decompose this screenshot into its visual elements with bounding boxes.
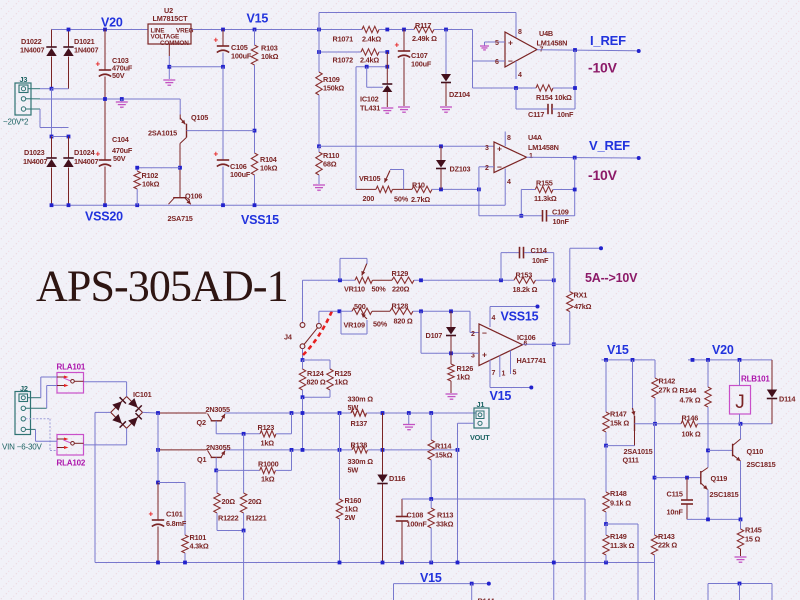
- svg-text:5W: 5W: [348, 466, 359, 475]
- svg-text:RLB101: RLB101: [741, 375, 770, 384]
- svg-text:10k Ω: 10k Ω: [682, 430, 701, 439]
- svg-text:TL431: TL431: [360, 104, 380, 113]
- svg-text:10nF: 10nF: [553, 217, 570, 226]
- svg-text:R1000: R1000: [258, 460, 279, 469]
- svg-text:100uF: 100uF: [411, 60, 432, 69]
- svg-text:LM1458N: LM1458N: [528, 143, 559, 152]
- svg-text:V20: V20: [712, 343, 734, 357]
- svg-text:V20: V20: [101, 16, 123, 30]
- svg-text:1kΩ: 1kΩ: [335, 378, 349, 387]
- svg-text:11.3k Ω: 11.3k Ω: [610, 541, 635, 550]
- svg-text:R149: R149: [610, 532, 627, 541]
- svg-text:100nF: 100nF: [407, 520, 428, 529]
- svg-text:150kΩ: 150kΩ: [323, 84, 344, 93]
- svg-text:2N3055: 2N3055: [206, 405, 231, 414]
- svg-text:R123: R123: [258, 423, 275, 432]
- svg-text:8: 8: [518, 29, 522, 36]
- svg-text:J2: J2: [20, 384, 28, 393]
- svg-text:8: 8: [507, 135, 511, 142]
- svg-text:R137: R137: [351, 419, 368, 428]
- svg-text:10kΩ: 10kΩ: [142, 180, 160, 189]
- svg-text:I_REF: I_REF: [590, 33, 626, 48]
- svg-text:R1221: R1221: [246, 514, 267, 523]
- svg-text:15kΩ: 15kΩ: [435, 451, 453, 460]
- svg-text:200: 200: [363, 194, 375, 203]
- svg-text:5W: 5W: [348, 403, 359, 412]
- svg-text:R113: R113: [437, 511, 453, 520]
- svg-text:R142: R142: [659, 377, 676, 386]
- svg-text:LM7815CT: LM7815CT: [153, 14, 189, 23]
- svg-text:2N3055: 2N3055: [206, 443, 231, 452]
- svg-text:R1071: R1071: [333, 35, 354, 44]
- svg-text:50V: 50V: [113, 154, 126, 163]
- svg-text:R148: R148: [610, 489, 627, 498]
- svg-text:6: 6: [495, 59, 499, 66]
- svg-text:COMMON: COMMON: [160, 40, 189, 47]
- svg-text:1N4007: 1N4007: [74, 157, 99, 166]
- svg-text:R1222: R1222: [218, 514, 239, 523]
- svg-text:RLA101: RLA101: [57, 363, 86, 372]
- svg-text:1kΩ: 1kΩ: [261, 475, 275, 484]
- svg-text:R117: R117: [415, 21, 431, 30]
- svg-text:5: 5: [513, 370, 517, 377]
- svg-text:VR105: VR105: [359, 174, 380, 183]
- svg-text:+: +: [497, 144, 502, 154]
- svg-text:C117: C117: [528, 110, 544, 119]
- svg-text:+: +: [96, 60, 101, 69]
- svg-text:C114: C114: [531, 246, 548, 255]
- svg-text:22k Ω: 22k Ω: [658, 541, 677, 550]
- svg-text:20Ω: 20Ω: [222, 497, 236, 506]
- svg-text:Q119: Q119: [711, 474, 728, 483]
- svg-text:C101: C101: [166, 510, 183, 519]
- svg-text:10kΩ: 10kΩ: [261, 52, 279, 61]
- svg-text:47kΩ: 47kΩ: [574, 302, 592, 311]
- svg-text:68Ω: 68Ω: [323, 160, 337, 169]
- svg-text:−: −: [508, 56, 513, 66]
- svg-text:33kΩ: 33kΩ: [436, 520, 454, 529]
- svg-text:100uF: 100uF: [230, 170, 251, 179]
- svg-text:VSS15: VSS15: [241, 213, 279, 227]
- svg-text:18.2k Ω: 18.2k Ω: [513, 285, 538, 294]
- svg-text:Q2: Q2: [197, 418, 206, 427]
- svg-text:27k Ω: 27k Ω: [659, 386, 678, 395]
- svg-text:C109: C109: [552, 208, 569, 217]
- svg-text:Q105: Q105: [191, 113, 208, 122]
- svg-text:APS-305AD-1: APS-305AD-1: [36, 262, 288, 311]
- svg-text:5: 5: [495, 40, 499, 47]
- svg-text:Q111: Q111: [623, 456, 639, 465]
- svg-text:500: 500: [354, 302, 366, 311]
- svg-text:C104: C104: [112, 135, 130, 144]
- svg-text:4: 4: [518, 72, 522, 79]
- svg-text:1N4007: 1N4007: [74, 46, 99, 55]
- svg-text:R114: R114: [435, 442, 452, 451]
- svg-text:-10V: -10V: [588, 167, 618, 183]
- svg-text:R10: R10: [412, 181, 425, 190]
- svg-text:+: +: [214, 150, 219, 159]
- svg-text:R155: R155: [536, 179, 553, 188]
- svg-text:J4: J4: [284, 333, 293, 342]
- svg-text:4: 4: [507, 179, 511, 186]
- svg-text:7: 7: [492, 370, 496, 377]
- svg-text:Q1: Q1: [197, 455, 206, 464]
- svg-text:V15: V15: [247, 12, 269, 26]
- svg-text:-10V: -10V: [588, 60, 618, 76]
- svg-text:2W: 2W: [345, 513, 356, 522]
- svg-text:15k Ω: 15k Ω: [610, 419, 629, 428]
- svg-text:4.3kΩ: 4.3kΩ: [190, 542, 209, 551]
- svg-text:4.7k Ω: 4.7k Ω: [680, 396, 701, 405]
- svg-text:R144: R144: [680, 386, 698, 395]
- svg-text:D1024: D1024: [74, 148, 96, 157]
- svg-text:VR110: VR110: [344, 285, 365, 294]
- svg-text:+: +: [149, 510, 154, 519]
- svg-text:2.4kΩ: 2.4kΩ: [362, 35, 381, 44]
- svg-text:R146: R146: [682, 414, 699, 423]
- svg-text:U4A: U4A: [528, 133, 543, 142]
- svg-text:2SA715: 2SA715: [168, 214, 193, 223]
- svg-text:15 Ω: 15 Ω: [745, 535, 761, 544]
- svg-text:RLA102: RLA102: [57, 459, 86, 468]
- svg-text:V15: V15: [607, 343, 629, 357]
- svg-text:3: 3: [485, 145, 489, 152]
- svg-text:50%: 50%: [394, 195, 409, 204]
- svg-text:R129: R129: [392, 269, 409, 278]
- svg-text:2SA1015: 2SA1015: [148, 129, 177, 138]
- svg-text:LM1458N: LM1458N: [537, 39, 568, 48]
- svg-text:820 Ω: 820 Ω: [394, 317, 413, 326]
- svg-text:R153: R153: [516, 271, 533, 280]
- svg-text:C108: C108: [407, 511, 424, 520]
- svg-text:Q110: Q110: [747, 447, 764, 456]
- svg-text:2: 2: [485, 165, 489, 172]
- svg-text:V15: V15: [420, 571, 442, 585]
- svg-text:V15: V15: [490, 389, 512, 403]
- svg-text:VR109: VR109: [344, 321, 365, 330]
- svg-text:C115: C115: [667, 490, 683, 499]
- svg-text:J1: J1: [477, 400, 485, 409]
- svg-text:Q106: Q106: [185, 192, 202, 201]
- svg-text:VSS20: VSS20: [85, 210, 123, 224]
- svg-text:10nF: 10nF: [557, 110, 574, 119]
- svg-text:2.7kΩ: 2.7kΩ: [411, 195, 430, 204]
- svg-text:IC101: IC101: [133, 390, 152, 399]
- svg-text:20Ω: 20Ω: [248, 497, 262, 506]
- svg-text:R154 10kΩ: R154 10kΩ: [536, 93, 572, 102]
- svg-text:R145: R145: [745, 526, 762, 535]
- svg-text:+: +: [508, 38, 513, 48]
- svg-text:2SC1815: 2SC1815: [710, 490, 739, 499]
- svg-text:100uF: 100uF: [231, 52, 252, 61]
- svg-text:VOUT: VOUT: [470, 433, 490, 442]
- svg-text:2.4kΩ: 2.4kΩ: [360, 56, 379, 65]
- svg-text:R138: R138: [351, 441, 368, 450]
- svg-text:IC102: IC102: [360, 95, 379, 104]
- svg-text:D114: D114: [779, 395, 796, 404]
- svg-text:V_REF: V_REF: [589, 138, 630, 153]
- svg-text:R128: R128: [392, 302, 409, 311]
- svg-text:+: +: [214, 36, 219, 45]
- svg-text:5A-->10V: 5A-->10V: [585, 271, 638, 285]
- svg-text:R1072: R1072: [333, 56, 354, 65]
- svg-text:10nF: 10nF: [532, 256, 549, 265]
- svg-text:J: J: [735, 392, 745, 413]
- svg-text:−: −: [497, 162, 502, 172]
- svg-text:DZ103: DZ103: [450, 165, 471, 174]
- svg-text:11.3kΩ: 11.3kΩ: [534, 194, 557, 203]
- svg-text:VIN −6-30V: VIN −6-30V: [2, 443, 42, 452]
- svg-text:U4B: U4B: [539, 29, 553, 38]
- svg-text:9.1k Ω: 9.1k Ω: [610, 499, 631, 508]
- svg-text:J3: J3: [20, 75, 28, 84]
- svg-text:VSS15: VSS15: [501, 310, 539, 324]
- svg-text:10nF: 10nF: [667, 508, 684, 517]
- svg-text:2: 2: [471, 331, 475, 338]
- svg-text:1: 1: [502, 371, 506, 378]
- svg-text:1kΩ: 1kΩ: [261, 439, 275, 448]
- svg-text:2SC1815: 2SC1815: [747, 460, 776, 469]
- svg-text:D107: D107: [426, 331, 443, 340]
- svg-text:+: +: [395, 41, 400, 50]
- svg-text:1kΩ: 1kΩ: [457, 373, 471, 382]
- svg-text:RX1: RX1: [574, 291, 588, 300]
- svg-text:D116: D116: [389, 474, 405, 483]
- svg-text:+: +: [482, 350, 487, 360]
- svg-text:10kΩ: 10kΩ: [260, 164, 278, 173]
- svg-text:DZ104: DZ104: [449, 90, 471, 99]
- svg-text:4: 4: [492, 315, 496, 322]
- svg-text:1: 1: [529, 153, 533, 160]
- svg-text:1N4007: 1N4007: [23, 157, 48, 166]
- svg-text:820 Ω: 820 Ω: [307, 378, 326, 387]
- svg-text:6.8mF: 6.8mF: [166, 519, 187, 528]
- svg-text:50%: 50%: [373, 320, 388, 329]
- svg-text:50V: 50V: [112, 71, 125, 80]
- svg-text:2.49k Ω: 2.49k Ω: [412, 34, 437, 43]
- svg-text:1N4007: 1N4007: [20, 46, 45, 55]
- svg-text:R144: R144: [478, 597, 496, 600]
- svg-text:R147: R147: [610, 410, 627, 419]
- svg-text:~20V*2: ~20V*2: [3, 118, 29, 127]
- svg-text:220Ω: 220Ω: [392, 285, 410, 294]
- svg-text:D1023: D1023: [24, 148, 45, 157]
- svg-text:−: −: [482, 328, 487, 338]
- svg-text:50%: 50%: [372, 285, 387, 294]
- svg-text:HA17741: HA17741: [517, 356, 547, 365]
